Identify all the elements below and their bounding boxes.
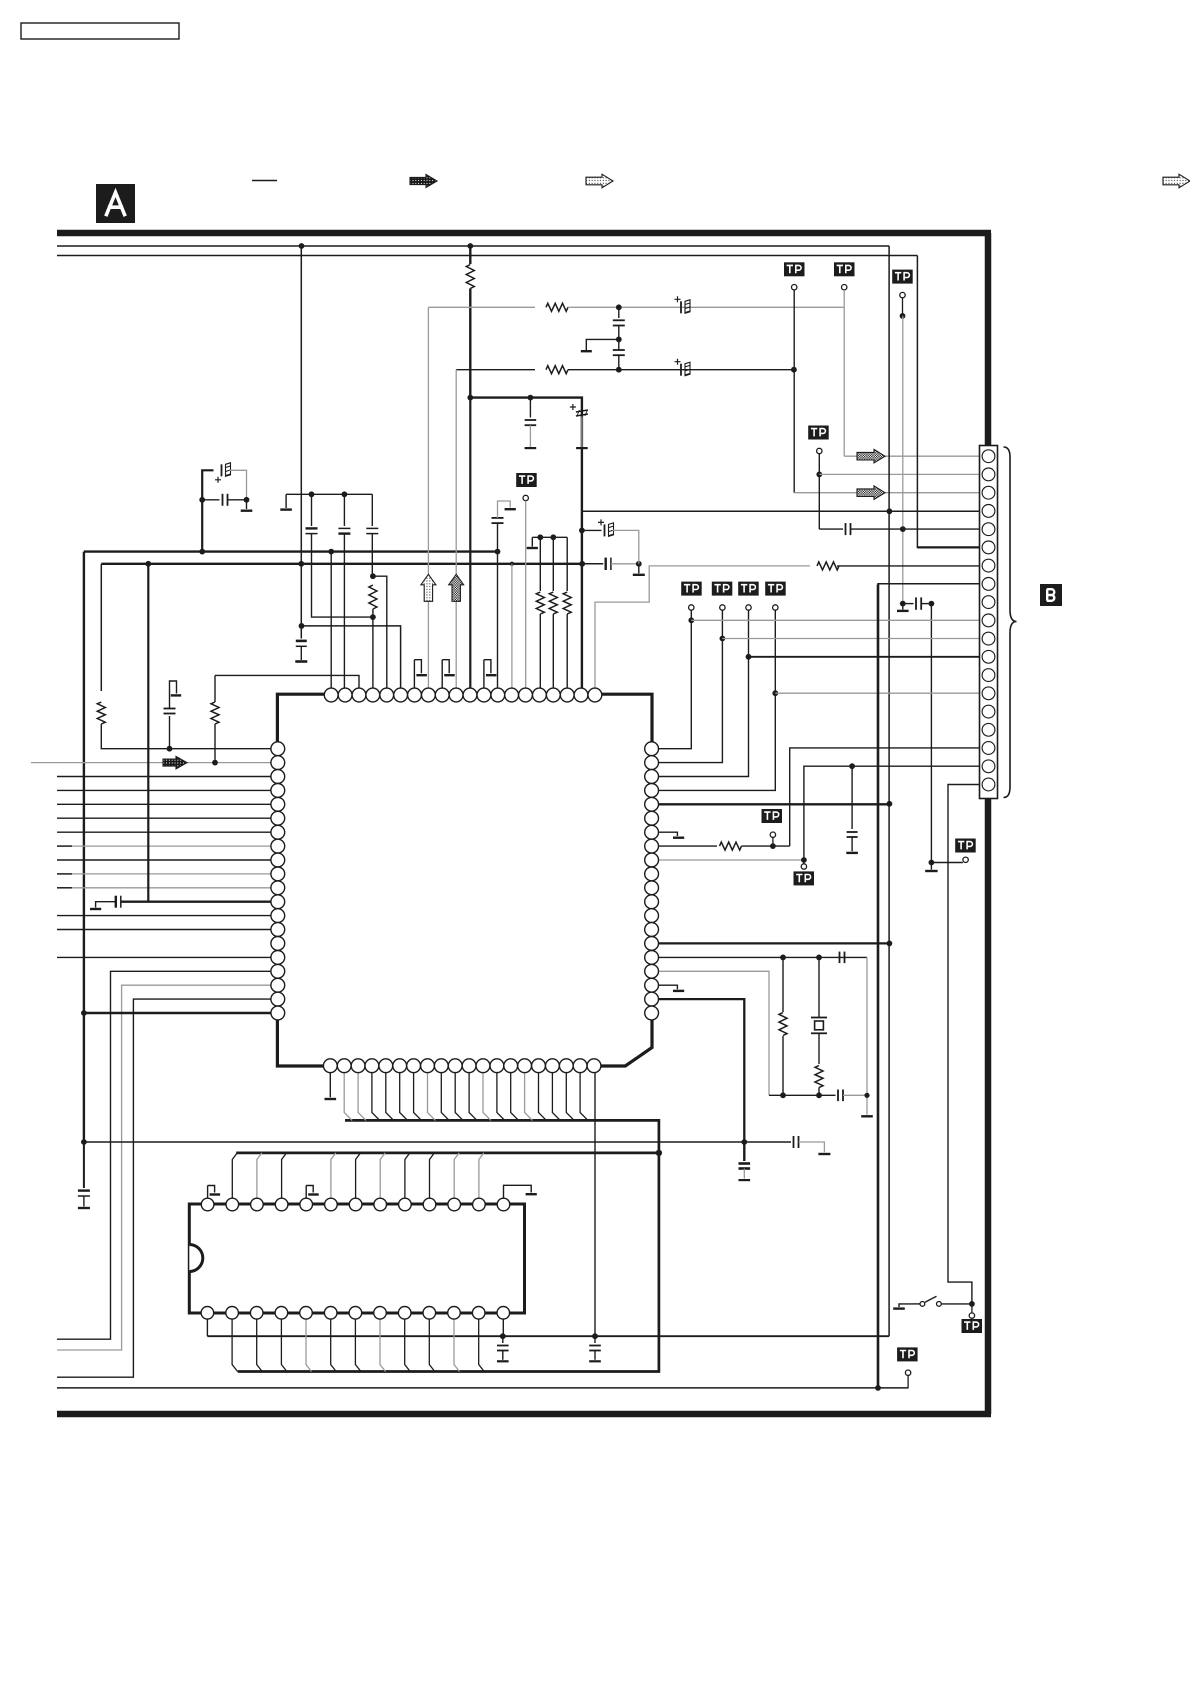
IC1 pin bottom 2 — [337, 1059, 351, 1073]
wire chip pin B4 stub to bundle — [372, 1072, 380, 1121]
ground rail bottom (thick) — [207, 1335, 889, 1337]
wire R-T4 lower — [372, 609, 374, 689]
IC1 pin right 1 — [645, 742, 659, 756]
IC2 pin top 8 — [374, 1198, 387, 1211]
wire capcluster gnd stem — [246, 500, 248, 509]
test point TP-mid circle — [523, 495, 528, 500]
inner boundary line upper 1 — [57, 245, 889, 247]
wire DIP pin D12b stub to bus — [479, 1319, 485, 1372]
IC1 pin bottom 8 — [421, 1059, 435, 1073]
IC1 pin top 9 — [435, 688, 449, 702]
wire conn pin6 net (thick) from y255 — [917, 256, 981, 548]
wire TP4 stem down — [818, 454, 820, 529]
test point TP-right circle — [963, 857, 968, 862]
junction dot net370 x=618.8 — [616, 367, 622, 373]
IC1 pin top 15 — [519, 688, 533, 702]
wire DIP pin D5b stub to bus — [306, 1319, 312, 1372]
switch SW1 wire — [941, 1303, 972, 1305]
connector CN-B pin 12 — [982, 650, 995, 663]
resistor R-783 — [779, 957, 787, 1095]
IC1 pin right 12 — [645, 895, 659, 909]
wire x215 vertical — [214, 675, 216, 702]
IC1 pin left 2 — [271, 756, 285, 770]
wire capcluster top right (gray) — [230, 470, 247, 500]
IC1 pin top 10 — [449, 688, 463, 702]
IC1 pin right 11 — [645, 881, 659, 895]
ground stem x=639 — [638, 564, 640, 574]
wire DIP pin D10 stub to bus — [430, 1153, 435, 1198]
mini ground R18 — [658, 985, 684, 991]
IC1 pin top 20 — [588, 688, 602, 702]
wire L11 net (gray) — [57, 887, 271, 889]
wire x=931 to TP-right circle — [931, 862, 963, 864]
wire L16 net — [57, 956, 271, 958]
wire chip pin B7 stub to bundle — [414, 1072, 422, 1121]
IC2 pin bottom 1 — [201, 1307, 214, 1320]
junction dot node397 cap tap — [528, 395, 534, 401]
IC1 pin right 20 — [645, 1006, 659, 1020]
connector CN-B pin 6 — [982, 541, 995, 554]
legend arrow dark — [410, 175, 437, 188]
IC2 pin top 9 — [399, 1198, 412, 1211]
IC1 pin bottom 3 — [351, 1059, 365, 1073]
connector CN-B pin 3 — [982, 486, 995, 499]
wire conn pin14 net (gray) — [775, 692, 981, 694]
junction dot x867 — [864, 1093, 869, 1098]
switch SW1 contact a — [920, 1302, 925, 1307]
IC1 pin left 17 — [271, 964, 285, 978]
capacitor C-L12 — [116, 896, 121, 908]
junction dot TP4 on pin2 net — [816, 472, 822, 478]
wire x878 thick part — [877, 585, 880, 1388]
IC1 pin left 12 — [271, 895, 285, 909]
wire TP4 to cap C-848 — [819, 528, 843, 530]
title box (empty) — [21, 23, 179, 39]
electrolytic cap C-net370 — [675, 359, 691, 376]
capacitor C-gndrail-B — [589, 1336, 601, 1361]
wire x=931 vertical — [930, 604, 932, 863]
mini ground D13 — [504, 1185, 537, 1198]
wire C-852 stem — [851, 837, 853, 851]
chip bottom bundle bus (thick) — [238, 1120, 659, 1371]
wire TP1 stem down — [793, 290, 795, 493]
IC1 pin top 2 — [338, 688, 352, 702]
IC2 pin top 5 — [300, 1198, 313, 1211]
capacitor C-R16 — [840, 952, 845, 964]
IC2 pin bottom 12 — [472, 1307, 485, 1320]
IC1 pin bottom 10 — [448, 1059, 462, 1073]
wire chip pin B14 stub to bundle — [511, 1072, 519, 1121]
IC1 pin bottom 13 — [490, 1059, 504, 1073]
junction dot x582 y530 — [579, 528, 585, 534]
IC1 pin right 5 — [645, 797, 659, 811]
IC1 pin left 16 — [271, 951, 285, 965]
junction dot rail494 c2 — [342, 491, 348, 497]
wire R5 net (thick) — [658, 803, 890, 805]
ground bar under C-530 — [525, 447, 537, 449]
junction dot capcluster right — [244, 497, 250, 503]
test point TPa label — [762, 809, 783, 823]
signal arrow conn pin3 — [857, 486, 885, 500]
mini ground R7 — [658, 832, 684, 838]
IC1 pin left 1 — [271, 742, 285, 756]
junction dot rail537 T16 — [537, 534, 543, 540]
wire L6 net — [57, 817, 271, 819]
IC1 pin top 8 — [422, 688, 436, 702]
resistor R-net307 — [546, 303, 568, 311]
IC1 pin top 14 — [505, 688, 519, 702]
wire T8 drop (gray) — [427, 307, 429, 689]
wire DIP pin D12 stub to bus — [479, 1153, 484, 1198]
wire L3 net — [57, 776, 271, 778]
wire DIP pin D8b stub to bus — [380, 1319, 386, 1372]
wire DIP pin D2b stub to bus — [232, 1319, 238, 1372]
resistor R-819 — [815, 1066, 823, 1096]
IC2 pin bottom 6 — [324, 1307, 337, 1320]
wire DIP pin D10b stub to bus — [429, 1319, 435, 1372]
legend wire sample — [252, 180, 277, 182]
page frame right border — [985, 233, 992, 1414]
test point TP6 label — [712, 582, 733, 596]
wire x=301 below bus2 — [300, 564, 302, 639]
wire L12 net (thick) — [121, 901, 271, 903]
capacitor C-848 — [846, 523, 851, 535]
section label B — [1040, 584, 1062, 606]
junction dot TP3 stem — [900, 313, 906, 319]
IC2 pin bottom 7 — [349, 1307, 362, 1320]
junction dot TP7 — [746, 654, 752, 660]
mini ground rail537 — [531, 536, 533, 539]
wire capchain ground branch — [586, 339, 619, 350]
IC1 pin left 9 — [271, 853, 285, 867]
wire conn pin19 net — [948, 785, 982, 1304]
test point TPbot label — [897, 1347, 918, 1361]
connector CN-B pin 7 — [982, 559, 995, 572]
wire cap530 stem — [529, 398, 531, 418]
electrolytic cap C-607 — [598, 519, 614, 536]
switch SW1 contact b — [937, 1302, 942, 1307]
mini ground D5 — [306, 1186, 319, 1199]
resistor R-R8 — [720, 842, 742, 850]
test point TP4 label — [808, 426, 829, 440]
junction dot x=470 node397 — [467, 395, 473, 401]
junction dot bus2 T14 (small) — [510, 562, 514, 566]
IC1 pin top 17 — [546, 688, 560, 702]
capacitor C-x84 — [78, 1191, 90, 1196]
wire DIP pin D6 stub to bus — [331, 1153, 336, 1198]
ground switch — [893, 1304, 913, 1309]
junction dot TP1 net370 — [791, 367, 797, 373]
wire chip pin B16 stub to bundle — [539, 1072, 547, 1121]
IC1 pin left 11 — [271, 881, 285, 895]
wire chip pin B2 stub to bundle — [344, 1072, 352, 1121]
capacitor C-530 — [525, 420, 537, 425]
test point TP8 label — [765, 582, 786, 596]
junction dot gndrail R15 — [887, 941, 893, 947]
IC1 pin bottom 15 — [518, 1059, 532, 1073]
resistor R-T16 — [536, 592, 544, 614]
IC1 pin bottom 19 — [573, 1059, 587, 1073]
ground bar C-x84 — [78, 1207, 90, 1209]
wire L7 net — [57, 831, 271, 833]
IC2 pin bottom 10 — [423, 1307, 436, 1320]
test point TPsw circle — [969, 1313, 974, 1318]
test point TP-right stem — [965, 861, 967, 863]
connector CN-B pin 18 — [982, 760, 995, 773]
wire chip pin B17 stub to bundle — [552, 1072, 560, 1121]
resistor R-T18 — [563, 592, 571, 614]
wire pin6 thick seg — [917, 546, 981, 548]
resistor R-net370 — [546, 366, 568, 374]
wire DIP pin D9 stub to bus — [405, 1153, 410, 1198]
wire L19 net elbow — [57, 999, 271, 1377]
IC1 pin top 13 — [491, 688, 505, 702]
junction dot DIP bus to bundle — [656, 1150, 662, 1156]
wire captap x852 — [851, 766, 853, 829]
junction dot net307 x=618.8 — [616, 304, 622, 310]
connector CN-B pin 5 — [982, 523, 995, 536]
signal arrow up T10 — [449, 574, 464, 601]
ground bar TP3 — [897, 610, 909, 612]
IC1 pin top 3 — [352, 688, 366, 702]
IC1 pin right 14 — [645, 923, 659, 937]
bus2 left corner down x=101 — [100, 564, 102, 691]
IC1 pin right 15 — [645, 937, 659, 951]
junction dot T4 net y576 — [370, 573, 376, 579]
ground drop rail494 left — [285, 494, 287, 508]
IC1 pin left 10 — [271, 867, 285, 881]
crystal X1 — [811, 957, 827, 1064]
wire T18 drop — [566, 537, 568, 591]
connector CN-B pin 2 — [982, 468, 995, 481]
junction dot bus1 T1 — [328, 549, 334, 555]
junction dot capchain mid — [616, 337, 622, 343]
junction dot TP8 — [772, 690, 778, 696]
wire DIP pin D7 stub to bus — [356, 1153, 361, 1198]
junction dot x=301 y=626 — [299, 623, 305, 629]
IC2 pin top 12 — [473, 1198, 486, 1211]
IC2 pin bottom 9 — [398, 1307, 411, 1320]
wire T16 to pin — [539, 614, 541, 689]
IC1 pin right 9 — [645, 853, 659, 867]
wire x867 vertical (gray) — [866, 957, 868, 1114]
IC2 pin top 6 — [325, 1198, 338, 1211]
IC2 pin bottom 8 — [374, 1307, 387, 1320]
wire T13 vertical — [497, 524, 499, 690]
wire DIP pin D8 stub to bus — [380, 1153, 385, 1198]
wire R16 net — [658, 956, 867, 958]
wire C-1093 to x867 (gray) — [843, 1094, 867, 1096]
IC1 pin right 6 — [645, 811, 659, 825]
capacitor C-chain-upper — [613, 320, 625, 325]
IC1 pin top 5 — [380, 688, 394, 702]
test point TP-mid label — [516, 473, 537, 487]
wire DIP pin D4b stub to bus — [281, 1319, 287, 1372]
IC1 pin top 7 — [408, 688, 422, 702]
wire x=470 vertical to node397 — [469, 289, 471, 398]
wire x=582 vertical (thick) — [581, 512, 583, 689]
brace for section B — [1004, 447, 1017, 798]
ground bar capcluster — [241, 510, 253, 512]
IC1 pin bottom 11 — [462, 1059, 476, 1073]
wire C-848 to pin5 net — [851, 528, 982, 530]
wire chip pin B8 stub to bundle — [428, 1072, 436, 1121]
wire L18 net elbow (gray) — [57, 985, 271, 1350]
wire L2 net (gray) — [31, 762, 271, 764]
junction dot TPa — [770, 843, 776, 849]
test point TPsw label — [962, 1319, 983, 1333]
wire jog to pin T5 — [373, 576, 387, 689]
junction dot L1 captap — [167, 746, 173, 752]
IC1 pin left 19 — [271, 992, 285, 1006]
junction dot x84 y1142 — [81, 1139, 87, 1145]
IC1 pin bottom 1 — [323, 1059, 337, 1073]
resistor R-x470 — [466, 265, 474, 289]
capacitor C-x301 — [296, 641, 307, 660]
capacitor C-T13 — [492, 518, 504, 523]
IC1 pin bottom 5 — [379, 1059, 393, 1073]
junction dot gnd node x=639 — [636, 561, 642, 567]
IC1 pin left 6 — [271, 811, 285, 825]
wire net1142 — [84, 1141, 791, 1143]
wire L10 net (gray) — [57, 873, 271, 875]
wire capchain x=618.8 upper — [618, 307, 620, 318]
wire R8 to TPa — [742, 845, 790, 847]
IC1 pin bottom 4 — [365, 1059, 379, 1073]
capacitor C-1093 — [838, 1090, 843, 1102]
capacitor C-cluster2 — [223, 494, 228, 506]
page frame bottom border — [57, 1411, 991, 1418]
wire L9 net — [57, 859, 271, 861]
junction dot x=931 top — [929, 601, 935, 607]
wire R17 net (gray) — [658, 971, 769, 1095]
wire net370 — [456, 369, 535, 371]
IC1 pin top 6 — [394, 688, 408, 702]
wire net-246 junction dot A — [299, 243, 305, 249]
wire C-918 to x=931 — [921, 603, 931, 605]
capacitor C-chain-lower — [613, 350, 625, 355]
legend arrow light — [586, 174, 613, 188]
wire R15 net (thick) — [658, 942, 890, 944]
wire T3 net — [215, 675, 359, 689]
wire chip pin B5 stub to bundle — [386, 1072, 394, 1121]
test point TPb circle — [801, 864, 806, 869]
capacitor C-1142 — [794, 1136, 799, 1148]
wire DIP pin D11b stub to bus — [454, 1319, 460, 1372]
electrolytic cap C-cluster — [215, 463, 231, 483]
wire conn pin10 net (gray) — [691, 619, 981, 621]
junction dot TP6 — [720, 636, 726, 642]
IC1 pin right 19 — [645, 992, 659, 1006]
junction dot pin18 captap — [849, 763, 855, 769]
junction dot rail494 c1 — [309, 491, 315, 497]
wire node397 horizontal (thick) — [470, 398, 582, 512]
wire gnd rail up x=889 — [888, 246, 890, 1336]
wire chip pin B13 stub to bundle — [497, 1072, 505, 1121]
junction dot rail537 T17 — [550, 534, 556, 540]
wire x=301 vertical (net-246 to bus2) — [300, 246, 302, 564]
ground bar rail494 — [280, 508, 292, 510]
junction dot x878 bottom — [875, 1385, 881, 1391]
wire T14 drop (gray) — [511, 564, 513, 689]
bus1 horizontal (thick) — [84, 550, 498, 552]
test point TP2 label — [834, 262, 855, 276]
junction dot bus1 end T13 — [495, 549, 501, 555]
connector CN-B pin 11 — [982, 632, 995, 645]
junction dot bus2 x148 — [145, 561, 151, 567]
ground bar under C-x301 — [295, 660, 307, 663]
connector CN-B pin 17 — [982, 742, 995, 755]
mini ground above C-L1 — [170, 681, 182, 709]
junction dot pin4 net x=889 — [887, 508, 893, 514]
signal arrow L2 — [163, 756, 187, 769]
wire T16 drop — [539, 537, 541, 591]
IC2 pin top 11 — [448, 1198, 461, 1211]
wire DIP pin D7b stub to bus — [355, 1319, 361, 1372]
wire bus2 ext to cap — [582, 563, 603, 565]
wire TPsw stem — [971, 1304, 973, 1313]
wire y530 to elec cap — [582, 529, 602, 531]
IC2 pin bottom 11 — [448, 1307, 461, 1320]
test point TPbot circle — [905, 1370, 910, 1375]
IC1 pin top 11 — [463, 688, 477, 702]
junction dot R16 a — [780, 955, 786, 961]
wire R3 to TP7 — [658, 610, 749, 776]
IC1 pin left 13 — [271, 909, 285, 923]
ground bar C-852 — [846, 852, 858, 854]
resistor R-T4 — [369, 585, 377, 609]
capacitor C-918 — [916, 597, 921, 609]
electrolytic cap C-net307 — [675, 296, 691, 313]
test point TP6 circle — [720, 605, 725, 610]
connector CN-B body — [980, 446, 998, 799]
IC1 pin top 1 — [324, 688, 338, 702]
junction dot T4 y617 — [370, 614, 376, 620]
connector CN-B pin 15 — [982, 705, 995, 718]
wire DIP pin D9b stub to bus — [405, 1319, 411, 1372]
wire T1 drop — [330, 552, 332, 690]
IC1 pin bottom 20 — [587, 1059, 601, 1073]
ground bar capchain — [581, 350, 592, 352]
IC2 pin top 2 — [226, 1198, 239, 1211]
test point TP5 circle — [689, 605, 694, 610]
junction dot net1093 b — [816, 1092, 822, 1098]
wire chip pin B3 stub to bundle — [358, 1072, 366, 1121]
mini ground T12 — [484, 660, 497, 690]
wire L4 net — [57, 789, 271, 791]
IC1 pin bottom 6 — [393, 1059, 407, 1073]
section label A — [96, 184, 135, 223]
junction dot L20 on x84 — [81, 1010, 87, 1016]
wire capchain middle — [618, 326, 620, 351]
signal arrow conn pin1 — [857, 449, 885, 463]
connector CN-B pin 10 — [982, 614, 995, 627]
ground rotated net1142 — [799, 1142, 831, 1154]
IC2 pin top 1 — [201, 1198, 214, 1211]
wire DIP pin D6b stub to bus — [331, 1319, 337, 1372]
IC2 pin bottom 2 — [226, 1307, 239, 1320]
wire T20 staircase (gray) — [595, 566, 810, 689]
test point TPa circle — [770, 832, 775, 837]
wire C-582 lower stem (gray) — [581, 417, 583, 448]
wire DIP pin D1b to gnd rail — [206, 1319, 208, 1336]
wire TP2 stem down (gray) — [843, 290, 845, 456]
IC2 pin bottom 4 — [275, 1307, 288, 1320]
IC1 pin top 19 — [574, 688, 588, 702]
wire cap x311 upper — [311, 494, 313, 526]
IC1 microcontroller body (QFP) — [277, 694, 652, 1066]
wire x=470 vertical to chip pin T11 — [469, 398, 471, 690]
